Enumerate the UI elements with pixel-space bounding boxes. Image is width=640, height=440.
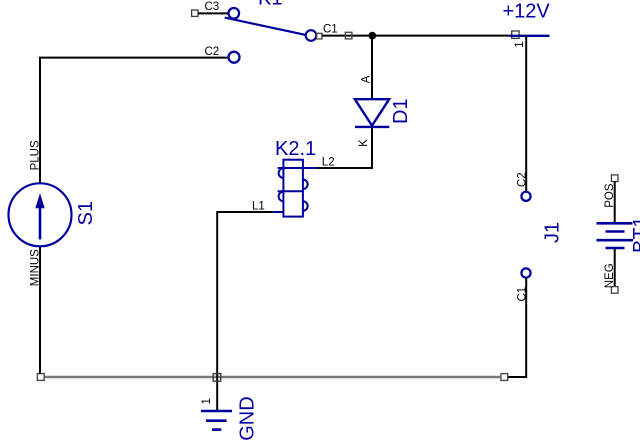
svg-text:L1: L1	[252, 201, 265, 213]
svg-text:GND: GND	[237, 396, 259, 440]
battery BT1 top wire	[614, 182, 616, 223]
pin pad C3 of K1	[192, 10, 198, 16]
svg-text:C2: C2	[517, 172, 529, 187]
wire S1 minus to rail	[39, 247, 41, 374]
relay coil body	[283, 160, 303, 217]
coil bump right 1	[303, 180, 308, 190]
wire endpoint square left	[37, 374, 44, 381]
pin wire C3	[198, 12, 229, 14]
diode D1 triangle	[355, 99, 389, 125]
svg-text:L2: L2	[322, 156, 335, 168]
svg-text:K2.1: K2.1	[275, 138, 316, 160]
switch contact circle C2	[229, 52, 240, 63]
battery BT1 bottom wire	[614, 249, 616, 287]
coil pin L1 (blue stub)	[272, 211, 283, 213]
junction dot	[368, 32, 376, 40]
wire endpoint square	[345, 32, 352, 39]
svg-text:K1: K1	[258, 0, 282, 10]
gnd pin pad square on rail	[213, 374, 221, 382]
svg-text:J1: J1	[541, 222, 563, 243]
+12V power bar	[510, 35, 550, 37]
svg-text:C3: C3	[205, 1, 220, 13]
svg-text:+12V: +12V	[503, 0, 551, 22]
wire J1 C1 to ground rail	[508, 278, 527, 377]
connector J1 pin C2 circle	[521, 192, 530, 201]
connector J1 pin C1 circle	[521, 268, 530, 277]
coil mid line	[278, 190, 303, 192]
wire L1 to ground	[217, 212, 272, 410]
source S1 arrow	[39, 204, 42, 240]
svg-text:BT1: BT1	[630, 216, 640, 253]
svg-text:NEG: NEG	[604, 263, 616, 288]
wire C2 branch to S1	[40, 58, 227, 184]
power pad of +12V	[512, 31, 519, 38]
svg-text:C1: C1	[323, 24, 338, 36]
switch arm K1	[225, 18, 308, 36]
svg-text:1: 1	[514, 41, 526, 47]
svg-text:PLUS: PLUS	[30, 140, 42, 170]
switch contact circle C1	[306, 30, 317, 41]
svg-text:MINUS: MINUS	[30, 249, 42, 286]
diode D1 cathode bar	[355, 126, 389, 128]
battery BT1 plates	[597, 222, 633, 225]
ground rail wire (gray)	[44, 376, 501, 378]
svg-text:C2: C2	[205, 46, 220, 58]
switch contact circle C3	[229, 8, 240, 19]
battery BT1 pad NEG	[611, 287, 618, 294]
wire junction to diode anode	[371, 37, 373, 99]
pin pad C1 of K1	[316, 33, 322, 39]
svg-text:D1: D1	[390, 98, 412, 124]
coil loop line L2	[278, 167, 318, 169]
svg-text:A: A	[360, 75, 372, 83]
battery BT1 pad POS	[611, 175, 618, 182]
coil bump left 1	[279, 168, 284, 178]
coil bump left 2	[279, 192, 284, 202]
svg-text:1: 1	[201, 398, 213, 404]
source S1 circle	[9, 183, 72, 246]
svg-text:K: K	[358, 139, 370, 147]
svg-text:S1: S1	[75, 201, 97, 225]
wire +12V to J1 C2	[525, 36, 527, 192]
wire diode cathode to L2	[318, 128, 373, 168]
wire C1 to +12V	[322, 35, 513, 37]
coil bump right 2	[303, 201, 308, 211]
wire endpoint square right	[501, 374, 508, 381]
ground symbol bars	[201, 410, 232, 413]
